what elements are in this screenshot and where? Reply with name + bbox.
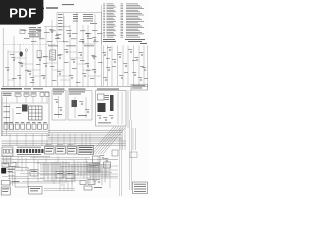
svg-text:PDF: PDF [9,6,36,21]
